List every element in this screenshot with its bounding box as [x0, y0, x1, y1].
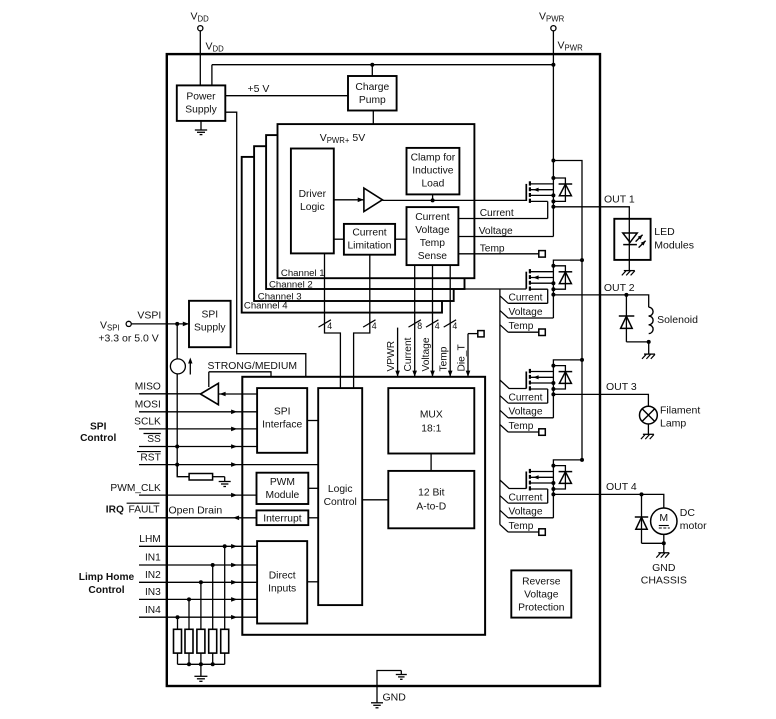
- svg-text:GND: GND: [383, 691, 407, 703]
- svg-text:Channel 2: Channel 2: [269, 280, 313, 291]
- svg-text:4: 4: [372, 321, 377, 331]
- svg-text:Temp: Temp: [509, 421, 534, 432]
- svg-text:OUT 1: OUT 1: [604, 194, 635, 206]
- svg-text:Temp: Temp: [480, 244, 505, 255]
- svg-text:Load: Load: [421, 179, 444, 190]
- svg-text:Clamp for: Clamp for: [411, 153, 456, 164]
- svg-text:Voltage: Voltage: [421, 337, 432, 371]
- svg-text:Voltage: Voltage: [509, 407, 543, 418]
- svg-text:Current: Current: [509, 293, 543, 304]
- svg-text:LED: LED: [654, 226, 675, 238]
- svg-text:Temp: Temp: [509, 521, 534, 532]
- svg-text:OUT 3: OUT 3: [606, 381, 637, 393]
- svg-text:+3.3 or 5.0 V: +3.3 or 5.0 V: [98, 332, 158, 344]
- svg-text:SPI: SPI: [201, 310, 218, 321]
- svg-text:IN3: IN3: [145, 587, 161, 598]
- svg-text:M: M: [659, 512, 668, 524]
- svg-text:SCLK: SCLK: [134, 417, 161, 428]
- svg-text:Supply: Supply: [185, 105, 217, 116]
- svg-text:SPI: SPI: [90, 422, 107, 433]
- svg-text:PWM_CLK: PWM_CLK: [110, 483, 161, 494]
- svg-text:Driver: Driver: [299, 189, 327, 200]
- svg-text:4: 4: [435, 321, 440, 331]
- svg-text:Voltage: Voltage: [524, 590, 559, 601]
- svg-text:Current: Current: [509, 392, 543, 403]
- svg-text:Pump: Pump: [359, 95, 386, 106]
- svg-text:IRQ: IRQ: [106, 504, 124, 515]
- svg-text:VPWR: VPWR: [386, 341, 397, 372]
- svg-text:GND: GND: [652, 562, 676, 574]
- svg-text:Limp Home: Limp Home: [79, 572, 135, 583]
- svg-text:OUT 2: OUT 2: [604, 282, 635, 294]
- svg-text:A-to-D: A-to-D: [416, 502, 446, 513]
- svg-text:Voltage: Voltage: [415, 225, 450, 236]
- svg-text:Open Drain: Open Drain: [169, 504, 223, 516]
- svg-text:8: 8: [417, 321, 422, 331]
- svg-text:IN2: IN2: [145, 570, 161, 581]
- svg-text:Current: Current: [480, 208, 514, 219]
- svg-text:MOSI: MOSI: [135, 400, 161, 411]
- svg-text:Logic: Logic: [328, 484, 353, 495]
- svg-text:RST: RST: [140, 452, 160, 463]
- svg-text:Die_T: Die_T: [456, 344, 467, 371]
- svg-text:Sense: Sense: [418, 251, 447, 262]
- svg-text:4: 4: [327, 321, 332, 331]
- svg-text:Voltage: Voltage: [509, 507, 543, 518]
- svg-text:motor: motor: [680, 520, 707, 532]
- svg-text:Current: Current: [352, 228, 386, 239]
- svg-text:IN4: IN4: [145, 605, 161, 616]
- svg-text:Temp: Temp: [439, 346, 450, 371]
- svg-text:SPI: SPI: [274, 407, 291, 418]
- svg-text:Lamp: Lamp: [660, 417, 686, 429]
- svg-text:Voltage: Voltage: [509, 307, 543, 318]
- svg-text:Module: Module: [266, 490, 300, 501]
- svg-text:MISO: MISO: [135, 382, 161, 393]
- svg-text:Current: Current: [415, 212, 449, 223]
- svg-text:Control: Control: [88, 585, 124, 596]
- svg-text:Temp: Temp: [509, 321, 534, 332]
- svg-text:+5 V: +5 V: [248, 83, 270, 95]
- svg-text:Logic: Logic: [300, 202, 325, 213]
- svg-text:Charge: Charge: [355, 82, 389, 93]
- svg-text:VSPI: VSPI: [137, 310, 161, 322]
- svg-text:Reverse: Reverse: [522, 577, 561, 588]
- svg-text:Inductive: Inductive: [412, 166, 453, 177]
- svg-text:4: 4: [452, 321, 457, 331]
- svg-text:Interface: Interface: [262, 420, 302, 431]
- svg-text:Current: Current: [509, 492, 543, 503]
- svg-text:Filament: Filament: [660, 404, 700, 416]
- svg-text:STRONG/MEDIUM: STRONG/MEDIUM: [208, 361, 297, 372]
- svg-text:Control: Control: [80, 433, 116, 444]
- svg-text:Protection: Protection: [518, 603, 565, 614]
- svg-text:FAULT: FAULT: [129, 504, 160, 515]
- svg-text:Control: Control: [324, 497, 357, 508]
- svg-text:18:1: 18:1: [421, 424, 441, 435]
- svg-text:SS: SS: [147, 434, 161, 445]
- svg-text:LHM: LHM: [139, 534, 161, 545]
- svg-text:Inputs: Inputs: [268, 584, 296, 595]
- svg-text:Direct: Direct: [269, 571, 296, 582]
- svg-text:Solenoid: Solenoid: [657, 314, 698, 326]
- svg-text:Power: Power: [186, 92, 216, 103]
- svg-text:Channel 4: Channel 4: [244, 301, 288, 312]
- svg-text:Temp: Temp: [420, 238, 445, 249]
- svg-text:Interrupt: Interrupt: [263, 513, 301, 524]
- svg-text:Voltage: Voltage: [479, 226, 513, 237]
- svg-text:Limitation: Limitation: [347, 241, 391, 252]
- svg-text:12 Bit: 12 Bit: [418, 488, 444, 499]
- svg-text:Current: Current: [403, 337, 414, 371]
- svg-text:CHASSIS: CHASSIS: [641, 575, 687, 587]
- svg-text:Channel 1: Channel 1: [281, 268, 325, 279]
- svg-text:Modules: Modules: [654, 240, 694, 252]
- svg-text:IN1: IN1: [145, 553, 161, 564]
- svg-text:MUX: MUX: [420, 410, 443, 421]
- svg-text:PWM: PWM: [270, 477, 295, 488]
- svg-text:DC: DC: [680, 507, 696, 519]
- svg-text:Supply: Supply: [194, 323, 226, 334]
- svg-text:OUT 4: OUT 4: [606, 481, 637, 493]
